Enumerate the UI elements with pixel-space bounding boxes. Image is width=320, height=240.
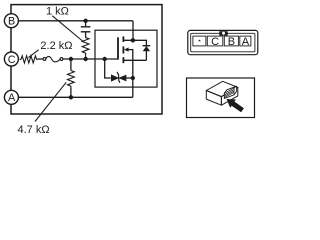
pointer 4.7k xyxy=(35,82,66,121)
terminal A circle xyxy=(4,90,18,104)
component right face xyxy=(221,87,237,105)
component socket right ridge xyxy=(233,88,235,95)
pointer arrow xyxy=(227,99,244,112)
diode D1 triangle xyxy=(143,46,150,51)
zener left triangle xyxy=(111,74,119,81)
junction dot C-4.7k xyxy=(69,57,73,61)
inner box (transistor module) xyxy=(95,30,157,87)
svg-text:1 kΩ: 1 kΩ xyxy=(46,6,69,18)
component socket body xyxy=(224,86,236,98)
component box xyxy=(187,78,255,118)
connector cell C xyxy=(207,36,223,46)
wire C rail xyxy=(18,58,44,60)
ring right xyxy=(60,58,63,61)
terminal C circle xyxy=(4,52,18,66)
diode D1 anode stub xyxy=(145,51,147,60)
wire to gate xyxy=(63,58,118,60)
resistor 1k zigzag vertical xyxy=(82,37,89,60)
zener center bar xyxy=(117,72,120,83)
capacitor branch stub xyxy=(85,21,87,26)
zener branch wire left xyxy=(105,59,111,78)
wire drain bar to diode xyxy=(123,40,146,45)
connector lock tab xyxy=(219,31,227,35)
mosfet body arrow head xyxy=(124,47,129,51)
mosfet source bar xyxy=(123,59,146,61)
ring left xyxy=(43,58,46,61)
wire source body rail vertical xyxy=(125,50,133,98)
svg-text:C: C xyxy=(8,54,16,66)
wire B vertical to drain xyxy=(132,21,134,41)
junction dot C-1k xyxy=(83,57,87,61)
pointer 1k xyxy=(52,16,84,43)
mosfet channel segment bottom xyxy=(122,57,124,63)
terminal B circle xyxy=(4,14,18,28)
component socket slot 3 xyxy=(224,92,234,98)
wire A rail xyxy=(18,96,132,98)
resistor 4.7k zigzag xyxy=(68,71,75,88)
capacitor plate bottom xyxy=(81,31,91,33)
junction dot zener-rail xyxy=(131,76,135,80)
wire B horizontal xyxy=(18,20,133,22)
connector lock tab hole xyxy=(222,32,225,35)
component left face xyxy=(206,91,221,106)
connector cell A xyxy=(240,36,251,46)
zener right triangle xyxy=(118,75,126,82)
diode D1 cathode bar xyxy=(143,45,151,47)
wire after 2.2k xyxy=(38,58,43,60)
junction dot drain xyxy=(131,38,135,42)
svg-text:B: B xyxy=(8,16,15,28)
svg-text:4.7 kΩ: 4.7 kΩ xyxy=(18,124,50,136)
wavy wire xyxy=(46,57,60,62)
component socket ridge xyxy=(224,86,236,93)
svg-text:2.2 kΩ: 2.2 kΩ xyxy=(40,40,72,52)
junction dot C-zener xyxy=(103,57,107,61)
capacitor to resistor stub xyxy=(85,32,87,36)
resistor 4.7k stub top xyxy=(70,59,72,71)
component socket slot 2 xyxy=(224,91,234,97)
component socket slot 1 xyxy=(224,89,234,95)
component top face xyxy=(206,81,238,96)
junction dot A-4.7k xyxy=(69,95,73,99)
svg-text:A: A xyxy=(8,92,16,104)
junction dot B-cap xyxy=(83,19,87,23)
svg-text:B: B xyxy=(228,36,235,48)
resistor 4.7k stub bottom xyxy=(70,87,72,97)
svg-text:C: C xyxy=(211,36,219,48)
zener wire right xyxy=(126,77,132,79)
connector cell blank xyxy=(193,36,206,46)
connector housing outer xyxy=(188,30,258,54)
svg-text:A: A xyxy=(242,36,250,48)
gate bar xyxy=(117,37,119,59)
connector index triangle xyxy=(198,40,201,42)
mosfet channel segment middle xyxy=(122,46,124,53)
connector cell B xyxy=(224,36,238,46)
resistor 2.2k zigzag xyxy=(20,56,38,63)
outer box xyxy=(11,5,162,114)
pointer 2.2k xyxy=(28,50,38,58)
capacitor plate top xyxy=(81,26,91,28)
connector housing inner xyxy=(191,33,255,52)
mosfet channel segment top xyxy=(122,36,124,42)
